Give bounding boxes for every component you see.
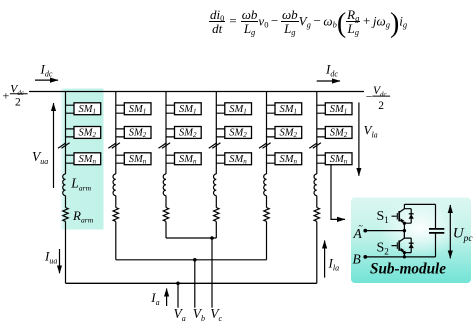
arrow Ia bbox=[166, 289, 168, 307]
wire col4 tail bbox=[215, 222, 217, 239]
svg-text:Ila: Ila bbox=[328, 256, 340, 273]
svg-text:Va: Va bbox=[174, 306, 186, 323]
svg-text:Idc: Idc bbox=[325, 62, 338, 79]
svg-text:~: ~ bbox=[359, 222, 364, 231]
wire phase a tap bbox=[177, 283, 179, 307]
arm column 5 bbox=[259, 92, 302, 222]
highlight band on first arm bbox=[60, 89, 104, 230]
svg-text:Sub-module: Sub-module bbox=[370, 261, 446, 278]
node A terminal bbox=[363, 229, 367, 233]
wire phase c connection bbox=[166, 237, 216, 239]
svg-text:Vc: Vc bbox=[210, 306, 222, 323]
transistor S2 IGBT bbox=[392, 231, 412, 257]
arrow Idc left bbox=[35, 79, 58, 81]
svg-text:B: B bbox=[353, 252, 361, 267]
equation d i0/dt bbox=[209, 8, 407, 36]
arm column 4 bbox=[209, 92, 252, 222]
submodule detail box highlight bbox=[351, 198, 471, 284]
wire col6 tail bbox=[316, 222, 318, 284]
node S1 emitter junction bbox=[403, 222, 406, 225]
svg-text:Vla: Vla bbox=[364, 123, 378, 140]
arm column 3 bbox=[159, 92, 202, 222]
node S2 emitter junction bbox=[403, 251, 406, 254]
arrow Ila bbox=[324, 241, 326, 278]
svg-text:Vb: Vb bbox=[193, 306, 205, 323]
svg-text:−: − bbox=[366, 89, 373, 103]
transistor S1 IGBT bbox=[392, 204, 412, 223]
node B terminal bbox=[363, 255, 367, 259]
wire midpoint vertical bbox=[403, 223, 405, 238]
svg-text:2: 2 bbox=[378, 100, 384, 112]
wire top DC rail bbox=[29, 91, 364, 93]
wire phase c tap bbox=[211, 238, 213, 308]
wire phase b connection bbox=[116, 259, 267, 261]
wire col1 tail bbox=[65, 222, 67, 284]
wire col5 tail bbox=[266, 222, 268, 260]
wire bottom rail phase a bbox=[66, 282, 317, 284]
diode D2 bbox=[409, 238, 414, 253]
svg-text:Ia: Ia bbox=[150, 290, 159, 307]
wire phase b tap bbox=[194, 260, 196, 308]
node phase b junction bbox=[193, 258, 197, 262]
callout arrow to submodule detail bbox=[331, 165, 345, 220]
svg-text:Vdc: Vdc bbox=[10, 84, 25, 97]
wire A lead bbox=[365, 230, 404, 232]
arrow Upc measurement bbox=[449, 205, 451, 258]
capacitor C plates bbox=[429, 229, 444, 233]
arm column 6 bbox=[309, 92, 352, 222]
wire B rail bbox=[365, 256, 435, 258]
arm column 2 bbox=[108, 92, 151, 222]
node phase a junction bbox=[176, 282, 180, 286]
svg-text:Iua: Iua bbox=[44, 249, 57, 266]
wire bridge top rail bbox=[404, 203, 435, 205]
node phase c junction bbox=[210, 236, 214, 240]
arrow Vua measurement bbox=[53, 103, 55, 188]
node A junction midpoint bbox=[403, 229, 406, 232]
svg-text:+: + bbox=[3, 89, 10, 103]
submodule detail box bbox=[351, 198, 471, 284]
wire capacitor bottom lead bbox=[435, 233, 437, 257]
node S2 bottom junction bbox=[403, 255, 406, 258]
arm column 1 upper phase a bbox=[58, 92, 101, 222]
svg-text:Idc: Idc bbox=[40, 62, 53, 79]
svg-text:2: 2 bbox=[15, 96, 21, 108]
arrow Idc right bbox=[317, 80, 340, 82]
wire col2 tail bbox=[115, 222, 117, 260]
arrow Vla measurement bbox=[358, 103, 360, 176]
diode D1 bbox=[409, 209, 414, 224]
wire col3 tail bbox=[165, 222, 167, 239]
svg-text:Vua: Vua bbox=[32, 149, 48, 166]
arrow Iua bbox=[59, 249, 61, 273]
wire capacitor top lead bbox=[435, 204, 437, 229]
